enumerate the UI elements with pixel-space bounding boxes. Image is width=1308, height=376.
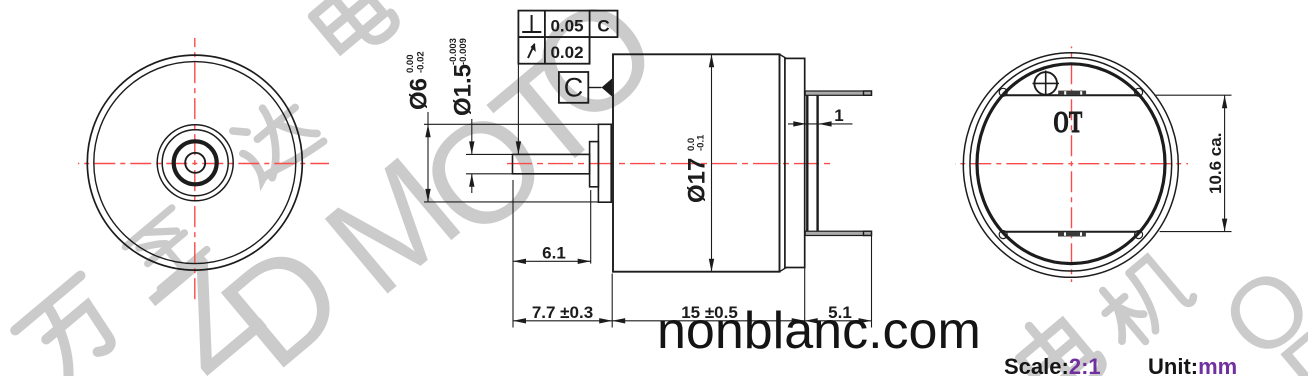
terminal bracket right wall xyxy=(816,95,818,231)
datum filled triangle xyxy=(602,79,613,97)
bottom chord line xyxy=(1002,231,1140,233)
dim 1 line xyxy=(788,123,853,125)
datum leader line xyxy=(588,87,601,89)
svg-text:10.6 ca.: 10.6 ca. xyxy=(1206,133,1225,194)
extension line at body face xyxy=(611,274,613,328)
dia1.5 top extension line xyxy=(466,153,513,155)
dim 5.1 line xyxy=(805,320,872,322)
dia1.5 label xyxy=(448,38,477,116)
dim 6.1 left arrowhead xyxy=(513,259,526,264)
dia1.5 dimension line upper xyxy=(471,119,473,154)
dim 6.1 line xyxy=(513,260,591,262)
dim 10.6 dimension line xyxy=(1224,95,1226,231)
extension line at endcap rear xyxy=(804,96,806,328)
svg-text:1: 1 xyxy=(834,106,843,125)
dim 5.1 left arrowhead xyxy=(805,318,818,323)
right view thick case circle xyxy=(977,64,1165,264)
dim 7.7 right arrowhead xyxy=(599,318,612,323)
svg-text:C: C xyxy=(564,73,584,103)
dia6 bottom extension line xyxy=(424,201,598,203)
top chord left ear circle xyxy=(999,88,1007,96)
fcf leader line to shaft xyxy=(517,64,519,155)
extension line at pin tips xyxy=(871,236,873,328)
dia17 top arrowhead xyxy=(709,54,714,67)
front boss rectangle xyxy=(598,124,611,202)
perpendicularity symbol xyxy=(522,15,541,32)
dia6 label xyxy=(405,51,433,110)
top pin end mark xyxy=(864,91,872,95)
top chord right ear circle xyxy=(1135,88,1143,96)
svg-text:0.00: 0.00 xyxy=(405,55,416,74)
top chord line xyxy=(1003,94,1140,96)
watermark chinese char 电 xyxy=(301,0,400,64)
dia6 bottom arrowhead xyxy=(425,189,430,202)
bottom pin end mark xyxy=(864,231,872,235)
left view crosshair horizontal centerline xyxy=(78,163,329,165)
dia6 top extension line xyxy=(424,123,598,125)
top terminal pin xyxy=(805,91,871,95)
svg-text:-0.02: -0.02 xyxy=(416,51,427,73)
svg-text:-0.1: -0.1 xyxy=(696,134,707,151)
dim 15 right arrowhead xyxy=(792,318,805,323)
dim 6.1 right arrowhead xyxy=(578,259,591,264)
dim 1 right arrowhead xyxy=(819,121,832,126)
dia17 bottom arrowhead xyxy=(709,259,714,272)
fcf leader arrowhead xyxy=(516,141,521,154)
datum C box xyxy=(559,72,588,103)
svg-text:nonblanc.com: nonblanc.com xyxy=(657,302,981,360)
bottom chord left ear circle xyxy=(999,231,1007,239)
body top right chamfer xyxy=(780,54,787,58)
right view red horizontal centerline xyxy=(955,163,1188,165)
watermark chinese char 万 xyxy=(15,276,129,376)
left view hub circle r33 xyxy=(162,130,228,196)
dim 10.6 label xyxy=(1206,133,1225,194)
left view crosshair vertical centerline xyxy=(194,38,196,300)
shaft bearing mid step xyxy=(590,142,599,187)
watermark chinese char 机 bottom right xyxy=(1089,249,1195,353)
feature control frame border xyxy=(518,11,617,64)
bottom terminal pin xyxy=(805,231,871,235)
watermark chinese char 电 bottom right xyxy=(1008,305,1107,376)
left view shaft hole circle xyxy=(185,153,205,173)
runout symbol xyxy=(528,44,535,58)
dim 7.7 line xyxy=(513,320,612,322)
top tab xyxy=(1058,91,1086,96)
svg-text:Ø6: Ø6 xyxy=(406,78,433,110)
dim 5.1 right arrowhead xyxy=(859,318,872,323)
svg-text:Ø17: Ø17 xyxy=(684,158,711,203)
svg-text:Scale:2:1: Scale:2:1 xyxy=(1004,354,1101,376)
dim 7.7 left arrowhead xyxy=(513,318,526,323)
dia6 top arrowhead xyxy=(425,124,430,137)
bottom chord right ear circle xyxy=(1135,231,1143,239)
dia17 label xyxy=(684,134,711,203)
watermark chinese char 达 xyxy=(226,91,323,188)
dim 1 left arrowhead xyxy=(793,121,806,126)
watermark chinese char 至 xyxy=(125,208,207,289)
svg-text:0.05: 0.05 xyxy=(550,17,583,36)
dim 10.6 bottom extension line xyxy=(1160,231,1232,233)
dim 15 line xyxy=(612,320,805,322)
dim 15 left arrowhead xyxy=(612,318,625,323)
svg-text:C: C xyxy=(597,17,609,36)
dia1.5 bottom extension line xyxy=(466,173,513,175)
svg-text:Unit:mm: Unit:mm xyxy=(1148,354,1237,376)
left view hub bearing thick ring xyxy=(174,141,217,184)
dia17 dimension line xyxy=(711,54,713,271)
extension line left for 6.1 and 7.7 xyxy=(512,180,514,328)
bottom tab xyxy=(1058,232,1086,237)
svg-text:Ø1.5: Ø1.5 xyxy=(450,64,477,116)
right view red vertical centerline xyxy=(1071,47,1073,283)
svg-text:OT: OT xyxy=(1053,104,1082,139)
extension line at boss face for 6.1 xyxy=(590,190,592,264)
right view second circle xyxy=(970,58,1172,271)
dim 10.6 top arrowhead xyxy=(1222,95,1227,108)
terminal bracket left wall xyxy=(806,95,808,231)
dim 10.6 bottom arrowhead xyxy=(1222,219,1227,232)
dim 10.6 top extension line xyxy=(1155,94,1232,96)
dia1.5 lower arrowhead xyxy=(469,174,474,187)
svg-text:-0.009: -0.009 xyxy=(458,38,469,65)
left view inner rim circle xyxy=(94,62,296,264)
dia1.5 dimension line lower xyxy=(471,174,473,193)
svg-text:7.7 ±0.3: 7.7 ±0.3 xyxy=(532,303,593,322)
motor body rectangle xyxy=(613,54,780,271)
dia1.5 upper arrowhead xyxy=(469,141,474,154)
body bottom right chamfer xyxy=(780,268,787,272)
vent hole crosshair symbol xyxy=(1033,71,1060,96)
left view hub circle r38 xyxy=(157,125,233,201)
right view outer circle xyxy=(963,53,1178,278)
svg-text:6.1: 6.1 xyxy=(542,244,566,263)
svg-text:0.02: 0.02 xyxy=(550,43,583,62)
middle view red axis centerline xyxy=(507,163,830,165)
shaft rectangle xyxy=(513,154,590,173)
rear endcap rectangle xyxy=(785,58,805,267)
dia6 dimension line xyxy=(427,112,429,202)
left view outer circle xyxy=(87,55,302,270)
